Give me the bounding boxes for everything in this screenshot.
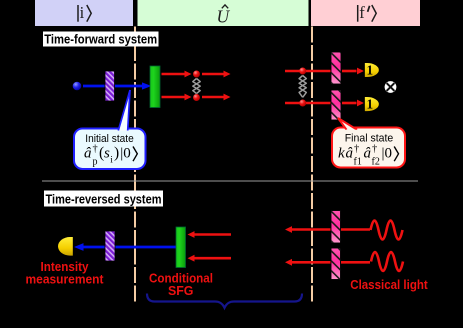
svg-text:†: † — [93, 144, 98, 155]
svg-text:1: 1 — [367, 63, 374, 78]
svg-text:U: U — [217, 7, 231, 27]
svg-text:measurement: measurement — [26, 273, 105, 287]
svg-text:f: f — [359, 3, 365, 22]
svg-text:Time-reversed system: Time-reversed system — [46, 191, 162, 206]
svg-text:Classical light: Classical light — [350, 278, 428, 292]
svg-text:i: i — [80, 3, 85, 22]
svg-text:†: † — [354, 144, 359, 155]
svg-text:): ) — [114, 145, 119, 162]
svg-text:f2: f2 — [372, 157, 380, 168]
svg-text:p: p — [93, 157, 98, 168]
svg-text:SFG: SFG — [168, 284, 194, 298]
svg-text:k: k — [338, 146, 345, 162]
svg-text:1: 1 — [367, 97, 374, 112]
svg-text:|0: |0 — [120, 146, 131, 162]
svg-text:i: i — [110, 156, 113, 166]
svg-text:Final state: Final state — [345, 133, 394, 145]
svg-text:|0: |0 — [382, 146, 393, 162]
svg-text:†: † — [372, 144, 377, 155]
svg-text:â: â — [346, 146, 354, 162]
svg-text:s: s — [104, 146, 110, 162]
svg-text:â: â — [364, 146, 372, 162]
svg-text:f1: f1 — [354, 157, 362, 168]
svg-text:Time-forward system: Time-forward system — [44, 32, 157, 47]
svg-text:â: â — [84, 146, 92, 162]
